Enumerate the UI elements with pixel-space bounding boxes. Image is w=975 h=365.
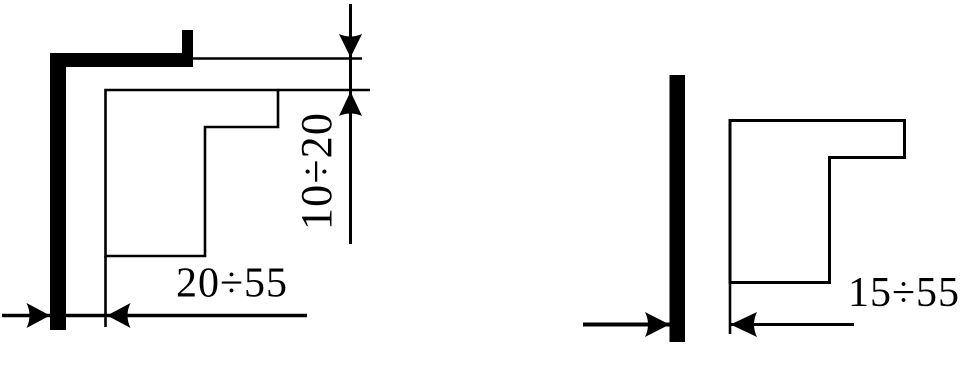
right figure: thick plate (vertical bar) — [670, 75, 686, 342]
arrow up (bottom of vertical dimension) — [339, 92, 362, 117]
vertical dimension line — [349, 4, 352, 244]
svg-text:15÷55: 15÷55 — [848, 270, 960, 316]
right figure: thin stepped weld outline — [730, 121, 905, 283]
arrow right (pointing at plate, left figure) — [27, 303, 51, 328]
arrow right (pointing at plate, right figure) — [645, 312, 670, 337]
wire: extension of outline left edge down to bottom dimension — [104, 256, 107, 327]
svg-text:10÷20: 10÷20 — [292, 112, 341, 230]
bottom dimension line left segment (right figure) — [583, 323, 670, 327]
svg-text:20÷55: 20÷55 — [176, 261, 288, 307]
left figure: thick angle plate (L-shape with end tick) — [50, 30, 193, 330]
wire: extension of outline top edge to dimension line — [278, 89, 370, 92]
left figure: thin stepped weld outline — [106, 90, 279, 256]
arrow left (pointing at outline edge, right figure) — [731, 312, 758, 337]
wire: extension of outline left edge down to bottom dimension (right figure) — [729, 283, 732, 335]
bottom dimension line (left figure) — [2, 314, 307, 318]
wire: extension line from plate end to dimension line — [193, 57, 362, 60]
arrow down (top of vertical dimension) — [339, 34, 362, 58]
bottom dimension line right segment (right figure) — [731, 323, 854, 326]
arrow left (pointing at outline edge, left figure) — [107, 303, 131, 328]
